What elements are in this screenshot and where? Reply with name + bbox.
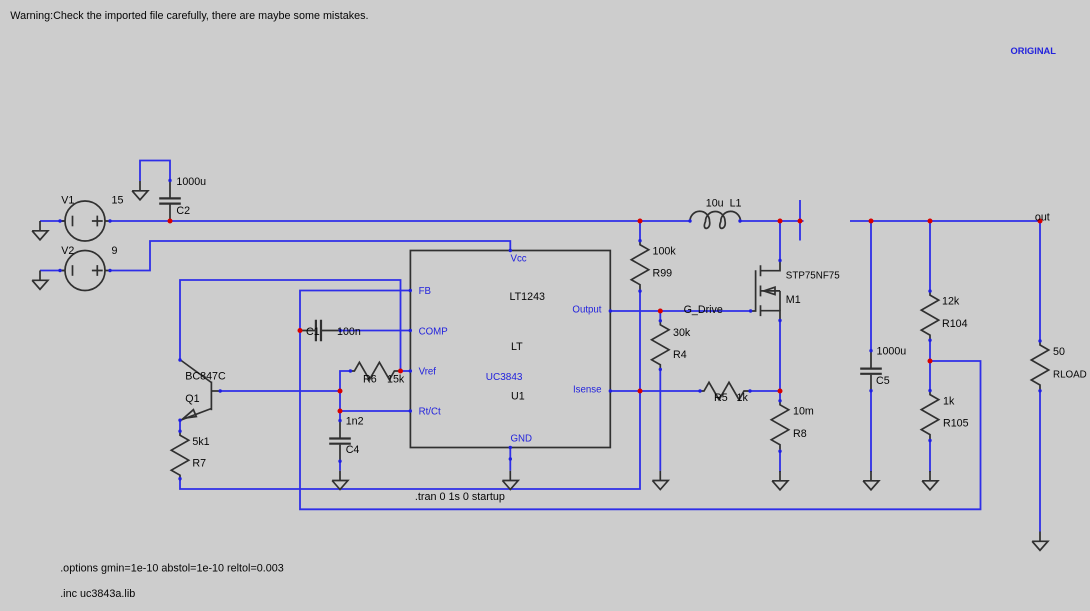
svg-text:V1: V1 <box>61 194 74 206</box>
svg-text:1k: 1k <box>737 392 749 404</box>
svg-text:UC3843: UC3843 <box>486 372 523 383</box>
svg-text:BC847C: BC847C <box>185 370 226 382</box>
svg-text:C4: C4 <box>346 444 360 456</box>
svg-text:15: 15 <box>112 194 124 206</box>
svg-text:U1: U1 <box>511 391 525 403</box>
svg-text:C5: C5 <box>876 375 890 387</box>
svg-text:L1: L1 <box>730 198 742 210</box>
svg-text:GND: GND <box>511 434 533 445</box>
svg-text:STP75NF75: STP75NF75 <box>786 271 840 282</box>
svg-text:LT1243: LT1243 <box>510 291 546 303</box>
svg-text:R99: R99 <box>653 268 673 280</box>
svg-text:100k: 100k <box>653 246 677 258</box>
svg-text:1000u: 1000u <box>877 346 907 358</box>
svg-text:15k: 15k <box>387 374 405 386</box>
svg-text:R8: R8 <box>793 428 807 440</box>
svg-text:R6: R6 <box>363 374 377 386</box>
svg-text:Q1: Q1 <box>185 393 199 405</box>
svg-text:out: out <box>1035 211 1050 223</box>
svg-text:LT: LT <box>511 341 523 353</box>
svg-text:100n: 100n <box>337 326 361 338</box>
svg-text:R4: R4 <box>673 349 687 361</box>
svg-text:.options gmin=1e-10 abstol=1e-: .options gmin=1e-10 abstol=1e-10 reltol=… <box>60 563 284 575</box>
svg-text:RLOAD: RLOAD <box>1053 370 1087 381</box>
svg-text:Output: Output <box>572 304 601 315</box>
svg-text:1000u: 1000u <box>176 176 206 188</box>
svg-text:1k: 1k <box>943 396 955 408</box>
svg-text:V2: V2 <box>61 245 74 257</box>
svg-text:G_Drive: G_Drive <box>684 304 723 316</box>
svg-text:Vref: Vref <box>419 367 437 378</box>
svg-text:Warning:Check the imported fil: Warning:Check the imported file carefull… <box>10 10 368 22</box>
svg-text:50: 50 <box>1053 346 1065 358</box>
svg-text:.inc uc3843a.lib: .inc uc3843a.lib <box>60 588 135 600</box>
svg-text:10m: 10m <box>793 406 814 418</box>
svg-text:Isense: Isense <box>573 385 602 396</box>
svg-text:C2: C2 <box>176 205 190 217</box>
svg-text:9: 9 <box>112 245 118 257</box>
svg-text:R7: R7 <box>192 458 206 470</box>
svg-text:30k: 30k <box>673 327 691 339</box>
svg-text:M1: M1 <box>786 294 801 306</box>
svg-text:10u: 10u <box>706 198 724 210</box>
svg-text:R5: R5 <box>714 392 728 404</box>
svg-text:.tran 0 1s 0 startup: .tran 0 1s 0 startup <box>415 491 505 503</box>
svg-text:Rt/Ct: Rt/Ct <box>419 407 441 418</box>
svg-text:1n2: 1n2 <box>346 415 364 427</box>
svg-text:R104: R104 <box>942 318 968 330</box>
svg-text:ORIGINAL: ORIGINAL <box>1011 46 1057 56</box>
svg-text:R105: R105 <box>943 418 969 430</box>
svg-text:C1: C1 <box>306 326 320 338</box>
svg-text:COMP: COMP <box>419 327 448 338</box>
svg-text:FB: FB <box>419 286 431 297</box>
svg-text:Vcc: Vcc <box>511 254 527 265</box>
svg-text:12k: 12k <box>942 296 960 308</box>
svg-text:5k1: 5k1 <box>192 436 209 448</box>
